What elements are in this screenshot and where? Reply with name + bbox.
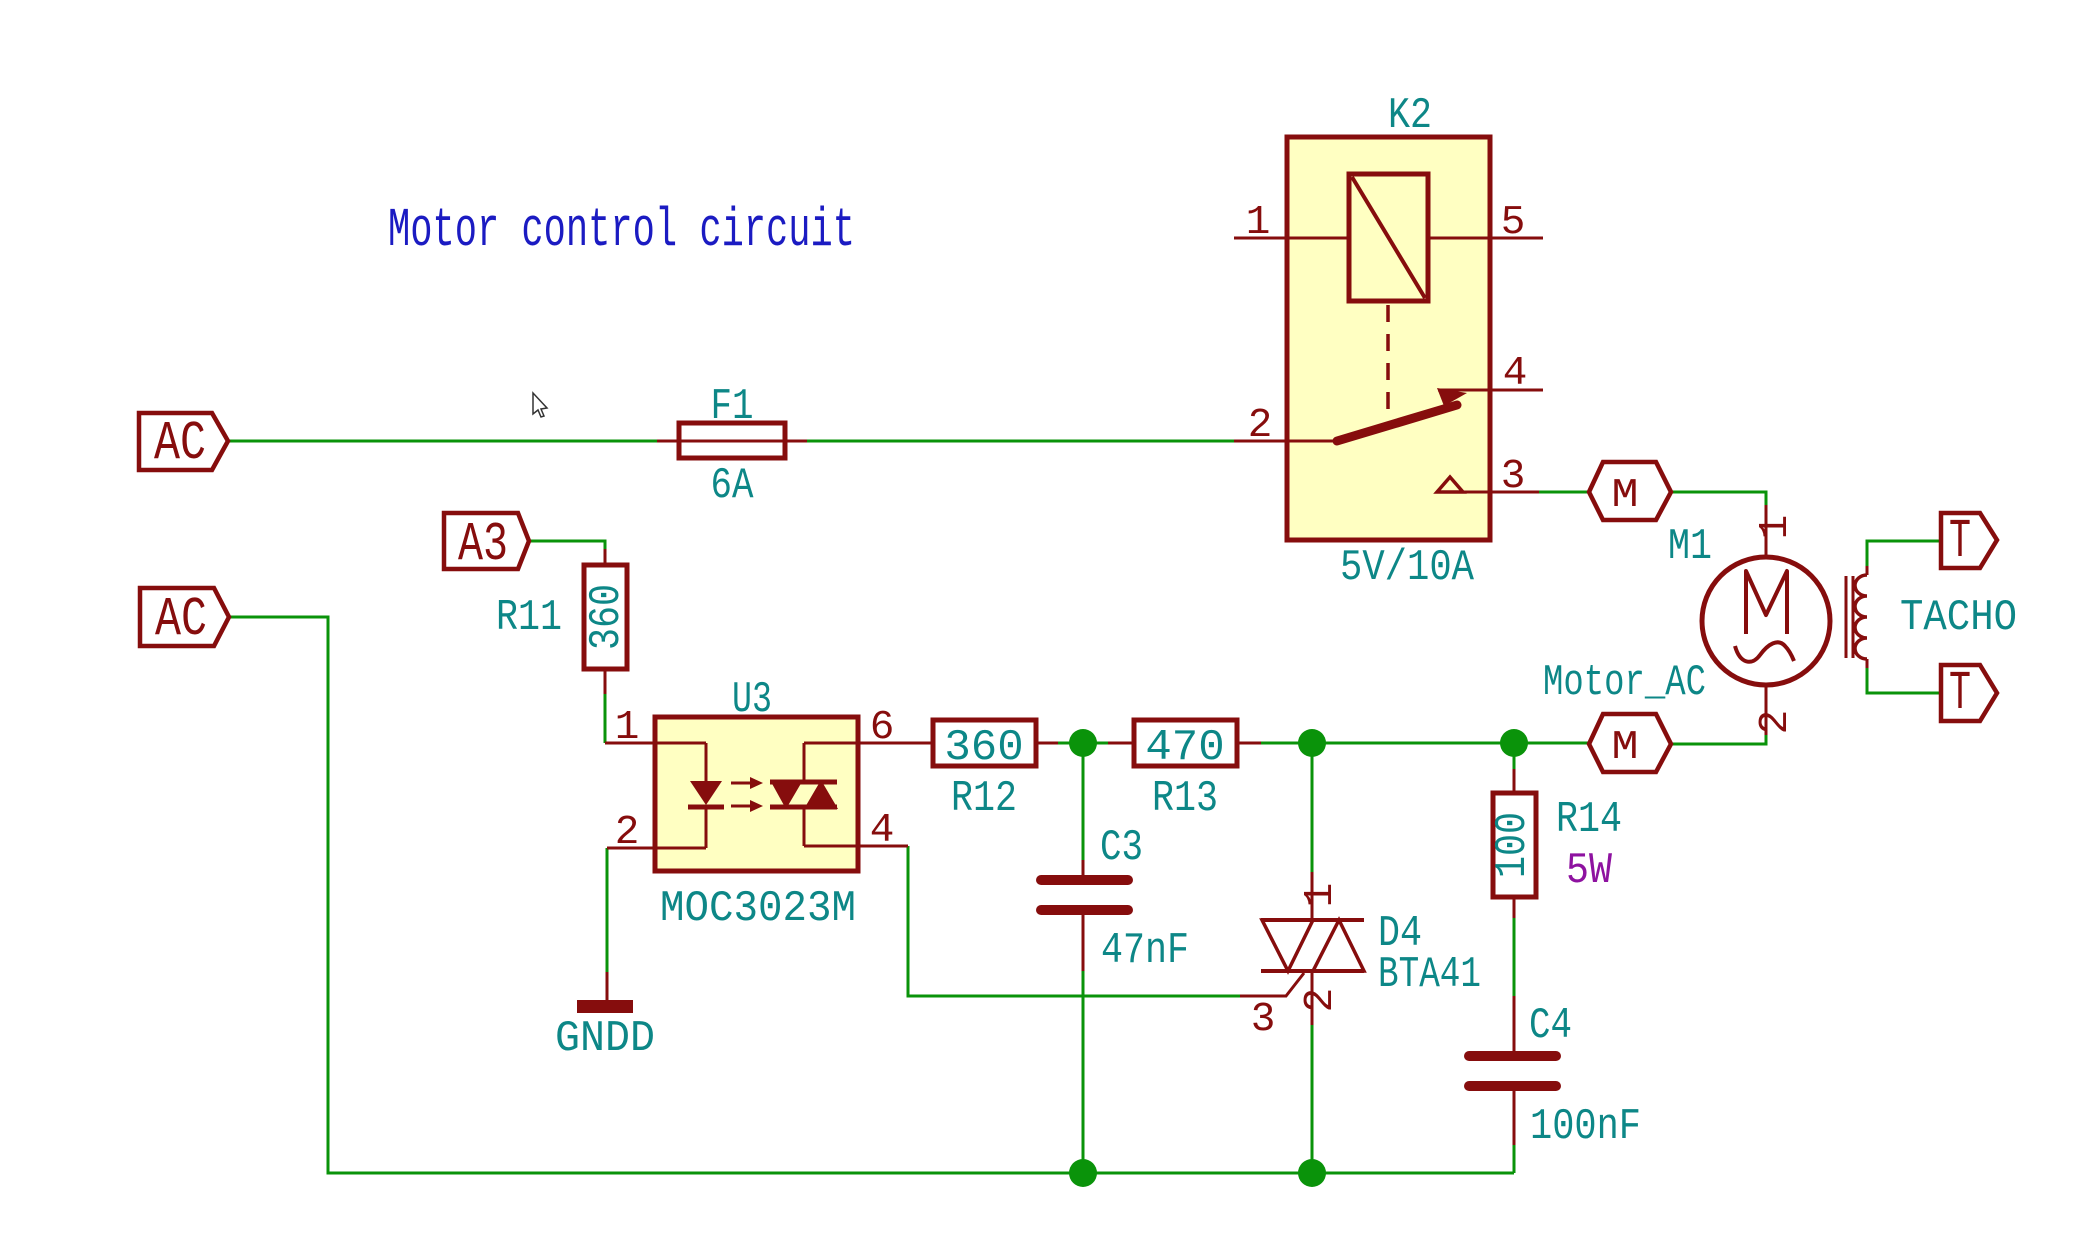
triac D4 reference — [1378, 909, 1422, 959]
triac D4 — [1261, 872, 1364, 1025]
svg-text:6: 6 — [870, 705, 895, 751]
svg-text:3: 3 — [1501, 454, 1526, 500]
wire tacho bottom to T2 — [1867, 667, 1941, 693]
wire C4 to bottom rail — [1513, 1144, 1516, 1173]
svg-text:360: 360 — [582, 584, 632, 650]
resistor R14 rating 5W — [1566, 846, 1613, 896]
wire fuse F1 to relay pin 2 — [807, 440, 1234, 443]
wire R11 to U3 pin 1 — [604, 692, 607, 743]
svg-text:A3: A3 — [458, 513, 508, 576]
mouse cursor — [533, 393, 547, 417]
U3 internal photo-triac — [770, 743, 838, 846]
wire triac D4 top — [1311, 743, 1314, 873]
wire R12 to R13 — [1057, 742, 1108, 745]
svg-text:F1: F1 — [711, 382, 754, 432]
hierarchical label M (bottom) — [1589, 714, 1671, 772]
wire A3 to R11 — [529, 541, 605, 553]
svg-text:BTA41: BTA41 — [1378, 950, 1481, 1000]
svg-text:Motor_AC: Motor_AC — [1543, 658, 1706, 708]
svg-text:GNDD: GNDD — [555, 1014, 655, 1064]
global label T (top) — [1941, 510, 1997, 573]
svg-text:6A: 6A — [711, 461, 754, 511]
U3 value MOC3023M — [660, 884, 856, 934]
svg-text:T: T — [1949, 510, 1971, 573]
wire C3 top — [1082, 743, 1085, 861]
svg-text:360: 360 — [944, 723, 1023, 773]
motor M1 pin 2 — [1753, 686, 1799, 735]
svg-text:1: 1 — [1298, 883, 1344, 908]
resistor R12 value 360 — [944, 723, 1023, 773]
svg-text:2: 2 — [1298, 988, 1344, 1013]
svg-text:R12: R12 — [951, 774, 1017, 824]
svg-text:100nF: 100nF — [1530, 1102, 1641, 1152]
wire U3 pin 4 to triac gate — [908, 846, 1240, 996]
global label AC (top) — [139, 412, 228, 475]
wire triac D4 bottom to rail — [1311, 1024, 1314, 1173]
wire junction to R14 — [1513, 743, 1516, 771]
U3 reference — [732, 675, 772, 725]
svg-text:5V/10A: 5V/10A — [1340, 543, 1474, 593]
svg-text:T: T — [1949, 662, 1971, 725]
capacitor C4 reference — [1529, 1001, 1572, 1051]
fuse F1 — [657, 423, 807, 458]
svg-text:C3: C3 — [1100, 823, 1143, 873]
svg-text:M: M — [1612, 473, 1639, 519]
svg-text:MOC3023M: MOC3023M — [660, 884, 856, 934]
svg-text:5W: 5W — [1566, 846, 1613, 896]
svg-text:K2: K2 — [1388, 91, 1432, 141]
capacitor C4 value 100nF — [1530, 1102, 1641, 1152]
optocoupler U3 body — [655, 717, 858, 871]
svg-text:2: 2 — [615, 810, 640, 856]
tacho transformer core — [1846, 576, 1853, 658]
resistor R13 value 470 — [1145, 723, 1224, 773]
svg-text:4: 4 — [870, 808, 895, 854]
wire U3 pin 2 to ground — [606, 848, 609, 973]
svg-text:3: 3 — [1251, 997, 1276, 1043]
resistor R14 reference — [1556, 795, 1622, 845]
resistor R13 reference — [1152, 774, 1218, 824]
junction at R13/D4 — [1298, 729, 1326, 757]
svg-text:2: 2 — [1248, 403, 1273, 449]
relay K2 value 5V/10A — [1340, 543, 1474, 593]
wire C3 bottom to rail — [1082, 970, 1085, 1173]
junction at R14 top — [1500, 729, 1528, 757]
capacitor C3 — [1041, 860, 1128, 971]
relay K2 pin 4 — [1438, 351, 1543, 397]
relay K2 pin 3 contact triangle — [1437, 477, 1463, 492]
relay K2 reference — [1388, 91, 1432, 141]
relay K2 pin 5 — [1428, 200, 1543, 246]
svg-text:1: 1 — [1753, 515, 1799, 540]
resistor R14 — [1493, 769, 1536, 918]
svg-text:AC: AC — [154, 412, 206, 475]
capacitor C3 value 47nF — [1101, 926, 1189, 976]
triac D4 pin 3 number — [1251, 997, 1276, 1043]
svg-text:M1: M1 — [1668, 522, 1712, 572]
tacho coil — [1855, 566, 1867, 668]
svg-text:C4: C4 — [1529, 1001, 1572, 1051]
label M1 — [1668, 522, 1712, 572]
triac D4 pin 1 number — [1298, 883, 1344, 908]
triac D4 value BTA41 — [1378, 950, 1481, 1000]
svg-text:R11: R11 — [496, 593, 562, 643]
svg-text:470: 470 — [1145, 723, 1224, 773]
relay K2 pin 3 — [1438, 454, 1539, 500]
svg-text:1: 1 — [1246, 200, 1271, 246]
global label A3 — [444, 513, 529, 576]
wire AC2 down and bottom rail — [229, 617, 1514, 1173]
ground GNDD — [577, 972, 633, 1013]
relay K2 pin 1 — [1234, 200, 1349, 246]
relay K2 coil — [1349, 174, 1428, 301]
motor M1 body — [1702, 557, 1830, 685]
relay K2 body — [1287, 137, 1490, 540]
fuse F1 reference — [711, 382, 754, 432]
wire tacho top to T1 — [1867, 541, 1941, 568]
svg-text:2: 2 — [1753, 710, 1799, 735]
svg-text:1: 1 — [615, 705, 640, 751]
svg-text:4: 4 — [1503, 351, 1528, 397]
resistor R13 — [1108, 720, 1261, 766]
svg-text:47nF: 47nF — [1101, 926, 1189, 976]
ground GNDD label — [555, 1014, 655, 1064]
wire R14 to C4 — [1513, 917, 1516, 997]
wire AC1 to fuse F1 — [228, 440, 657, 443]
wire relay pin 3 to M label — [1539, 491, 1589, 494]
triac D4 pin 2 number — [1298, 988, 1344, 1013]
capacitor C3 reference — [1100, 823, 1143, 873]
title text — [388, 199, 855, 262]
triac D4 gate — [1240, 973, 1304, 996]
svg-text:AC: AC — [155, 588, 207, 651]
U3 internal LED — [688, 743, 724, 848]
resistor R12 — [933, 720, 1058, 766]
hierarchical label M (top) — [1589, 462, 1671, 520]
resistor R14 value 100 — [1488, 812, 1538, 878]
fuse F1 value 6A — [711, 461, 754, 511]
svg-text:R13: R13 — [1152, 774, 1218, 824]
junction bottom rail D4 — [1298, 1159, 1326, 1187]
svg-text:100: 100 — [1488, 812, 1538, 878]
svg-text:U3: U3 — [732, 675, 772, 725]
svg-text:Motor control circuit: Motor control circuit — [388, 199, 855, 262]
wire M label to motor pin 1 — [1671, 492, 1766, 507]
svg-text:M: M — [1612, 725, 1639, 771]
resistor R11 value 360 — [582, 584, 632, 650]
relay K2 pin 2 — [1234, 403, 1340, 449]
label Motor_AC — [1543, 658, 1706, 708]
svg-text:5: 5 — [1501, 200, 1526, 246]
U3 internal arrows — [731, 777, 763, 812]
junction at R12/R13 — [1069, 729, 1097, 757]
relay K2 switch blade — [1337, 388, 1467, 441]
wire R13 to Motor_AC row — [1260, 742, 1589, 745]
label TACHO — [1900, 593, 2017, 643]
U3 pin 1 — [605, 705, 706, 751]
resistor R11 — [584, 549, 627, 694]
U3 pin 2 — [607, 810, 706, 856]
U3 pin 4 — [804, 808, 908, 854]
svg-text:TACHO: TACHO — [1900, 593, 2017, 643]
global label T (bottom) — [1941, 662, 1997, 725]
U3 pin 6 — [804, 705, 933, 751]
motor M1 pin 1 — [1753, 505, 1799, 557]
capacitor C4 — [1469, 996, 1556, 1145]
wire Motor_AC label to motor pin 2 — [1671, 733, 1766, 744]
resistor R11 reference — [496, 593, 562, 643]
global label AC (bottom) — [140, 588, 229, 651]
junction bottom rail C3 — [1069, 1159, 1097, 1187]
svg-text:R14: R14 — [1556, 795, 1622, 845]
relay K2 armature dashed link — [1386, 305, 1390, 419]
resistor R12 reference — [951, 774, 1017, 824]
